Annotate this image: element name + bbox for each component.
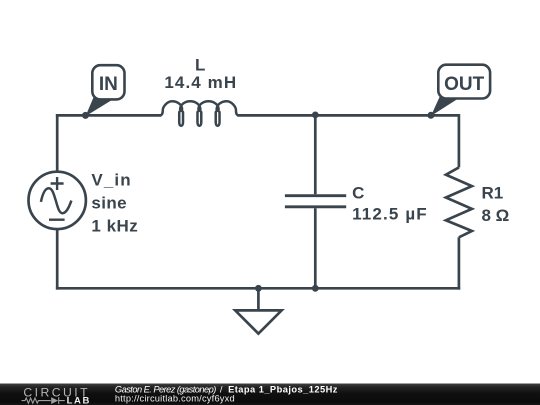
wire left branch upper xyxy=(56,114,59,171)
voltage source V_in xyxy=(29,172,86,229)
node IN junction dot xyxy=(82,112,89,119)
node ground junction dot xyxy=(255,285,262,292)
svg-text:C: C xyxy=(352,183,364,202)
wire top rail right segment xyxy=(237,114,459,117)
svg-text:LAB: LAB xyxy=(67,395,91,405)
capacitor C xyxy=(285,196,346,207)
svg-text:OUT: OUT xyxy=(444,74,485,95)
wire capacitor branch lower xyxy=(314,208,317,288)
svg-text:V_in: V_in xyxy=(91,171,131,190)
svg-text:14.4 mH: 14.4 mH xyxy=(164,73,237,92)
wire top rail left segment xyxy=(56,114,161,117)
wire capacitor branch upper xyxy=(314,115,317,194)
inductor L xyxy=(161,101,238,126)
svg-text:8 Ω: 8 Ω xyxy=(482,206,510,225)
svg-text:1 kHz: 1 kHz xyxy=(91,217,138,236)
flag OUT xyxy=(431,65,490,116)
svg-text:L: L xyxy=(195,55,205,74)
flag IN xyxy=(86,65,125,116)
wire bottom rail xyxy=(56,287,460,290)
svg-text:R1: R1 xyxy=(482,184,504,203)
svg-text:112.5 µF: 112.5 µF xyxy=(352,204,428,223)
wire right branch upper xyxy=(458,114,461,167)
wire right branch lower xyxy=(458,237,461,289)
ground xyxy=(235,288,281,333)
resistor R1 xyxy=(446,167,472,237)
wire left branch lower xyxy=(56,230,59,290)
footer logo schematic squiggle xyxy=(22,397,65,404)
node capacitor bottom junction dot xyxy=(312,285,319,292)
node OUT junction dot xyxy=(427,112,434,119)
svg-text:sine: sine xyxy=(91,194,127,213)
node capacitor top junction dot xyxy=(312,112,319,119)
svg-text:IN: IN xyxy=(99,74,118,95)
svg-text:http://circuitlab.com/cyf6yxd: http://circuitlab.com/cyf6yxd xyxy=(115,393,235,403)
